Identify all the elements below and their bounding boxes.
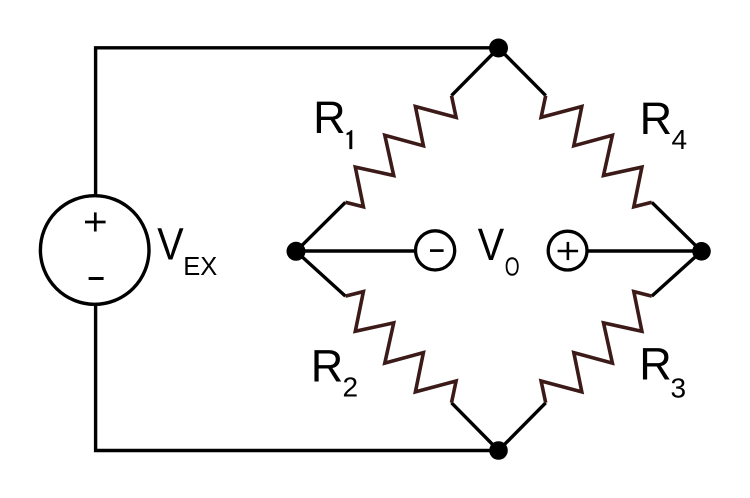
voltage source VEX circle: [40, 196, 149, 305]
minus sign inside source: [89, 277, 104, 280]
resistor R4: [541, 96, 652, 207]
label R1: [313, 92, 352, 149]
svg-text:3: 3: [671, 373, 687, 404]
wire right node to R4: [652, 202, 702, 251]
svg-text:R: R: [313, 92, 346, 143]
wire plus terminal to right node: [587, 249, 702, 252]
resistor R2: [345, 292, 456, 403]
node bottom: [489, 441, 508, 460]
label VO: [478, 219, 520, 281]
label R4: [640, 93, 687, 155]
wire left node to minus terminal: [296, 249, 416, 252]
label R2: [311, 340, 358, 402]
minus sign in terminal: [430, 249, 444, 252]
plus sign in terminal: [558, 242, 579, 260]
svg-text:O: O: [505, 251, 520, 281]
wire right node to R3: [652, 251, 702, 296]
wire bottom rail from source to bottom node: [96, 304, 499, 451]
node right: [692, 242, 711, 261]
svg-text:4: 4: [672, 124, 688, 155]
wire top rail from source to top node: [96, 48, 499, 196]
node top: [489, 39, 508, 58]
wire bottom node to R2: [452, 403, 499, 451]
label R3: [639, 339, 686, 404]
plus sign inside source: [85, 212, 106, 231]
wire top node to R4: [499, 48, 546, 96]
svg-text:V: V: [478, 219, 505, 269]
svg-text:R: R: [639, 339, 672, 390]
wire top node to R1: [452, 48, 499, 96]
wire left node to R1: [296, 202, 345, 251]
svg-text:R: R: [311, 340, 344, 391]
svg-text:EX: EX: [183, 253, 217, 281]
node left: [287, 242, 306, 261]
wire left node to R2: [296, 251, 345, 296]
wire bottom node to R3: [499, 403, 546, 451]
resistor R1: [345, 96, 456, 207]
plus terminal circle: [548, 231, 587, 270]
svg-text:V: V: [157, 219, 184, 269]
minus terminal circle: [416, 231, 455, 270]
svg-text:R: R: [640, 93, 673, 144]
resistor R3: [541, 292, 652, 403]
svg-text:2: 2: [343, 372, 359, 403]
label VEX: [157, 219, 217, 281]
